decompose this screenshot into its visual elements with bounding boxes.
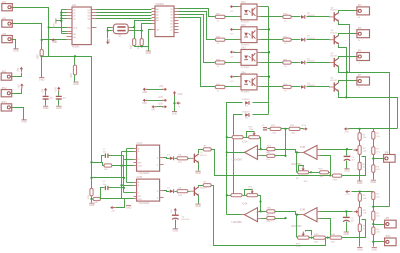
resistor R18 10k	[177, 188, 188, 197]
resistor R6b 4k7	[358, 224, 367, 232]
resistor R19 120k	[232, 136, 243, 139]
wire +5V to OK4 anode	[234, 76, 241, 78]
wire R23b to divider	[275, 218, 286, 220]
wire x389 to tap	[374, 206, 390, 208]
wire IC4A output left	[227, 214, 245, 216]
wire +5V to OK2 anode	[234, 29, 241, 31]
svg-text:+5V: +5V	[229, 56, 233, 58]
wire R19 to trimmer	[244, 137, 249, 139]
wire R5b to trimmer2v	[359, 202, 361, 208]
wire emitter rail mid	[346, 73, 348, 98]
supply +5V arrow OK2	[229, 28, 234, 36]
wire Q4 to A3	[97, 18, 152, 20]
node junction JP2/VDD	[41, 39, 43, 41]
svg-text:+15V: +15V	[56, 87, 58, 93]
supply +15V arrow rail2	[345, 190, 351, 196]
resistor R23 12k	[266, 154, 275, 161]
svg-text:GND: GND	[173, 230, 179, 233]
node junction R16 left	[90, 198, 92, 200]
wire vB to IC7A C	[124, 159, 134, 161]
op-amp IC4B	[291, 208, 321, 228]
resistor R30 4k8	[330, 234, 342, 244]
wire -in to R23	[261, 155, 267, 157]
wire +5V to C3	[175, 213, 177, 215]
resistor R38	[215, 37, 225, 46]
trimmer R3b 10k	[354, 207, 368, 216]
node junction IC3B out	[296, 151, 298, 153]
svg-text:+15V: +15V	[345, 194, 351, 196]
wire C1 right to vB	[109, 155, 124, 157]
resistor R25 osc	[138, 39, 143, 49]
supply VSS arrow at crystal	[106, 38, 111, 44]
resistor R22 220k	[270, 125, 281, 134]
wire O2 to row 3	[179, 15, 216, 63]
capacitor C6 mark	[262, 125, 268, 130]
svg-text:BC637: BC637	[330, 33, 337, 35]
node junction C2 vB	[123, 187, 125, 189]
svg-text:LM1458N: LM1458N	[232, 221, 243, 224]
wire +15V to C7	[58, 92, 60, 96]
transistor Q5 BC637	[329, 30, 339, 44]
ground below R4b	[372, 247, 378, 251]
op-amp IC3A	[232, 140, 261, 161]
diode D6 1N4004	[301, 13, 315, 19]
svg-text:74LS123N: 74LS123N	[138, 203, 149, 205]
wire O1 to row 2	[179, 12, 216, 40]
svg-text:JP12: JP12	[1, 87, 7, 90]
svg-text:JP2: JP2	[2, 17, 7, 20]
svg-text:74LS123N: 74LS123N	[138, 173, 149, 175]
wire vC to IC7B A	[127, 182, 134, 184]
svg-text:VCC: VCC	[142, 102, 147, 105]
node junction vA R15	[120, 165, 122, 167]
wire OK3 emitter to R41	[261, 62, 283, 64]
wire IC7A Q to D1	[164, 158, 170, 159]
node junction R28 right	[309, 237, 314, 239]
ground below T2	[195, 204, 201, 208]
resistor R17 10k	[177, 155, 188, 164]
wire R39 to opto	[225, 62, 241, 64]
wire D3 to Q3 base	[307, 86, 330, 88]
wire OK2 collector to rail	[261, 29, 269, 31]
crystal Q2 resonator	[112, 24, 131, 37]
wire vA to IC7A B	[122, 151, 134, 153]
wire osc bottoms rail	[135, 46, 149, 51]
wire R7 to bottom loop	[212, 186, 326, 246]
wire Q4 collector to JP6	[339, 57, 357, 59]
trimmer R9 100k	[296, 166, 309, 180]
supply +5V arrow OK3	[229, 50, 234, 58]
svg-text:+5V: +5V	[229, 81, 233, 83]
svg-text:GND: GND	[73, 83, 79, 86]
svg-text:IC4B: IC4B	[300, 209, 306, 212]
resistor R6 4k7	[358, 162, 367, 170]
ground below JP13	[21, 120, 27, 124]
resistor R23b 12k	[266, 217, 275, 224]
node junction crystal left	[107, 30, 109, 32]
ground below T1	[195, 171, 201, 175]
resistor R5b 10k	[358, 194, 367, 202]
connector JP11	[1, 70, 12, 80]
ground at IC7B	[126, 205, 132, 209]
wire D6 to Q6 base	[307, 16, 330, 18]
wire CLK to IC2	[49, 27, 67, 29]
supply VH net tie	[151, 104, 167, 112]
trimmer R12 120k	[247, 186, 258, 196]
svg-text:BC107: BC107	[200, 188, 207, 190]
node junction JP10 tap	[372, 241, 374, 243]
IC7A pin stubs	[134, 147, 164, 167]
svg-text:JP1: JP1	[2, 1, 7, 4]
wire left col top	[359, 129, 361, 133]
supply +15V arrow R25	[301, 125, 308, 130]
wire +15V rail2	[352, 191, 374, 193]
wire vertical vB	[123, 156, 125, 193]
wire Q5 collector to JP5	[339, 34, 357, 36]
ground below R6	[357, 181, 363, 185]
wire R6 to ground	[359, 170, 361, 181]
wire IC2 PE stub	[62, 32, 67, 34]
node junction output net	[329, 174, 331, 176]
ground GND at IC2 jam rail	[54, 18, 63, 28]
svg-text:BC107: BC107	[200, 155, 207, 157]
wire C3 to ground	[175, 220, 177, 229]
optocoupler OK2	[238, 25, 261, 46]
resistor R31 vertical	[88, 188, 93, 199]
wire +in to R20	[261, 149, 267, 151]
svg-text:100n/16: 100n/16	[181, 219, 190, 221]
svg-text:+12V: +12V	[158, 97, 164, 99]
resistor R8 10k	[203, 146, 211, 151]
node junction rail1 left col	[358, 128, 360, 130]
resistor R42	[283, 37, 291, 46]
node junction JP8 tap	[372, 157, 374, 159]
resistor R7 10k	[203, 181, 211, 186]
node junction rail end	[90, 177, 92, 179]
resistor R5 10k	[358, 133, 367, 141]
svg-text:GND: GND	[21, 121, 27, 124]
wire crystal left pins	[108, 28, 112, 31]
resistor R16b 40k	[318, 169, 328, 179]
supply +15V arrow C7	[56, 87, 61, 93]
wire trimmer2v to R6b	[359, 217, 361, 224]
supply +5V arrow OK4	[229, 75, 234, 83]
connector JP9	[385, 218, 397, 228]
wire R13 to trimmer2	[243, 195, 247, 197]
wire R9 wiper loop	[299, 166, 304, 171]
wire Q2 to A1	[97, 12, 152, 14]
ground below oscillator	[146, 51, 152, 55]
capacitor C2 10n	[103, 181, 108, 190]
svg-text:GND: GND	[372, 248, 378, 251]
supply VSS net tie	[173, 91, 183, 112]
wire R26 to ground	[41, 57, 43, 78]
wire vA to IC7B B	[122, 185, 134, 187]
ground below R6b	[357, 247, 363, 251]
svg-text:GND: GND	[126, 206, 132, 209]
wire IC4B -in down	[321, 219, 331, 236]
wire OK4 emitter to R40	[261, 86, 283, 88]
node junction emitter rail 2	[345, 96, 347, 98]
svg-text:BC637: BC637	[330, 10, 337, 12]
wire emitter rail to x389	[347, 73, 390, 207]
connector JP1	[2, 1, 13, 11]
node junction vB rail	[123, 177, 125, 179]
wire D8 right	[253, 114, 269, 116]
optocoupler OK1	[238, 2, 261, 23]
resistor R4b 4k7	[372, 227, 381, 235]
wire O3 to row 4	[179, 18, 216, 87]
wire R5 to trimmer	[359, 141, 361, 146]
diode D2 1N4148	[167, 188, 174, 194]
svg-text:JP11: JP11	[1, 70, 7, 73]
wire R18 to T2 base	[188, 191, 190, 193]
svg-text:+15V: +15V	[158, 104, 164, 106]
wire R8 to comparator net	[212, 150, 331, 176]
wire pulldown rail	[42, 57, 92, 178]
supply +15V arrow rail1	[344, 127, 350, 133]
wire node down to R26	[41, 40, 43, 50]
wire JP13 to ground	[12, 108, 24, 120]
svg-text:74100N: 74100N	[155, 3, 164, 6]
resistor R20 80k	[266, 145, 275, 154]
wire R20 to IC3B out	[275, 150, 300, 153]
wire OK1 emitter to R43	[261, 16, 283, 18]
wire IC7B Q to D2	[164, 191, 170, 192]
resistor R41	[283, 59, 291, 68]
wire +5V to OK1 anode	[234, 6, 241, 8]
IC IC2 4029 box	[72, 4, 91, 48]
wire left col top2	[359, 192, 361, 194]
svg-text:GND: GND	[89, 204, 95, 207]
wire +15V rail1	[349, 128, 398, 130]
wire hysteresis divider	[285, 129, 287, 156]
svg-text:GND: GND	[146, 52, 152, 55]
wire D1 to R17	[175, 158, 177, 160]
ground below C3	[173, 229, 179, 233]
resistor R40	[283, 84, 291, 93]
svg-text:BC637: BC637	[330, 55, 337, 57]
svg-text:CLR: CLR	[138, 166, 142, 168]
connector JP10	[385, 236, 397, 246]
supply +5V arrow OK1	[229, 5, 234, 13]
wire R29 jog	[326, 237, 331, 239]
wire -in2 to R23b	[261, 218, 267, 220]
connector JP12	[1, 87, 12, 97]
node junction IC4A +in	[259, 210, 261, 212]
svg-text:GND: GND	[54, 23, 56, 28]
wire wiper to C4b	[346, 150, 348, 156]
resistor R1b 10k	[372, 192, 381, 200]
svg-text:JP3: JP3	[2, 33, 7, 36]
wire C7 to ground	[58, 100, 60, 106]
wire JP1 to CLK node	[13, 8, 49, 28]
wire feedback left leg	[227, 195, 231, 197]
svg-text:PC900V: PC900V	[241, 67, 250, 69]
ground below C5	[344, 232, 350, 236]
svg-text:4029N: 4029N	[72, 45, 80, 48]
svg-text:VDD: VDD	[142, 91, 147, 94]
svg-text:VH: VH	[151, 108, 155, 111]
wire OK4 collector to rail	[261, 76, 269, 78]
resistor R37	[215, 14, 225, 23]
resistor R26	[38, 50, 44, 59]
resistor R13 120k	[231, 194, 242, 197]
wire JP12 to +5V	[12, 89, 22, 94]
svg-text:+15V: +15V	[344, 132, 350, 134]
capacitor C5 4n7	[343, 217, 355, 222]
ground below C7	[56, 106, 62, 110]
node junction x389 tap	[372, 206, 374, 208]
wire OK1 collector to rail	[261, 6, 269, 8]
IC IC7B 74LS123 box	[137, 176, 160, 205]
wire R21 wiper loop	[247, 132, 255, 138]
op-amp IC4A	[232, 203, 261, 224]
wire D7 net to R19 feedback	[227, 137, 233, 139]
wire JP11 to +5V	[12, 73, 22, 77]
wire IC3A output left	[227, 152, 245, 154]
ground below C4b	[344, 169, 350, 173]
svg-text:VSS: VSS	[178, 93, 183, 96]
diode D1 1N4148	[167, 155, 174, 161]
resistor R20b 80k	[266, 208, 275, 217]
wire R37 to opto	[225, 16, 241, 18]
node junction R26 bottom	[41, 55, 43, 57]
wire C1 left loop	[102, 156, 105, 163]
wire R34 to opto	[225, 86, 241, 88]
svg-text:CO: CO	[87, 28, 90, 30]
svg-text:+5V: +5V	[159, 86, 164, 88]
wire R16 row to CLR	[101, 198, 134, 200]
svg-text:GND: GND	[56, 107, 62, 110]
supply +5V arrow JP11	[18, 67, 23, 72]
wire osc1 down to R24	[134, 28, 136, 39]
wire R22 to junction	[281, 128, 289, 130]
connector JP4	[357, 5, 370, 19]
resistor R43	[283, 14, 291, 23]
supply +5V arrow JP12	[19, 83, 24, 88]
wire R41 to D4	[292, 62, 301, 64]
wire IC2 jam rail	[62, 10, 67, 32]
diode D8 1N4007	[242, 111, 250, 119]
wire trimmer2 to +in node	[258, 196, 261, 212]
svg-text:GND: GND	[357, 182, 363, 185]
wire osc1 riser to IC1	[135, 21, 152, 28]
svg-text:OK4: OK4	[241, 72, 246, 74]
supply VDD arrow at IC2	[51, 38, 57, 44]
node junction bottom net	[327, 236, 329, 238]
diode D4 1N4004	[301, 58, 315, 64]
capacitor C1 10n	[103, 149, 108, 158]
node junctions opto rail	[268, 28, 270, 78]
resistor R16 10k	[93, 197, 100, 204]
diode D7 1N4007	[242, 99, 250, 107]
supply +5V arrow C4	[42, 88, 47, 93]
wire C2 left loop	[101, 188, 105, 199]
wire Q4 emitter down	[339, 67, 347, 73]
IC IC1 74155 box	[155, 3, 174, 37]
node junction R22/R25	[284, 128, 286, 130]
svg-text:PC900V: PC900V	[241, 92, 250, 94]
wire R23 to divider	[275, 155, 286, 157]
wire C6 to R22	[268, 128, 271, 130]
wire osc2 down to R25	[141, 31, 143, 39]
wire R1b to R2b	[373, 200, 375, 212]
transistor T2 BC107	[189, 185, 207, 196]
connector JP5	[357, 28, 370, 42]
node junction osc bottom	[141, 45, 143, 47]
wire +5V to C4	[45, 93, 47, 96]
svg-text:IC3B: IC3B	[300, 146, 306, 149]
svg-text:CLK: CLK	[73, 27, 78, 29]
svg-text:GND: GND	[39, 78, 45, 81]
wire wiper to C5	[346, 212, 348, 217]
IC1 pin names	[156, 8, 173, 32]
wire osc2 riser to IC1	[142, 24, 152, 31]
wire IC3B -in down	[321, 156, 331, 176]
wire emitter rail to x397	[347, 98, 398, 129]
wire crystal to IC1 osc1	[131, 27, 135, 29]
svg-text:CLR: CLR	[138, 199, 142, 201]
wire crystal to osc2	[131, 30, 142, 32]
svg-text:VDD: VDD	[52, 41, 57, 44]
svg-text:GND: GND	[371, 181, 377, 184]
wire trimmer to +in node	[260, 138, 261, 150]
wire opto collector rail	[268, 7, 270, 115]
svg-text:GND: GND	[43, 107, 49, 110]
ground below VSS	[172, 112, 178, 116]
connector JP13	[1, 101, 12, 111]
resistor R4 4k7	[372, 165, 381, 173]
wire rail branch to R15	[92, 163, 105, 166]
wire JP1 vertical to rail	[48, 28, 50, 57]
wire R27 top	[74, 57, 76, 66]
wire rail to R31	[91, 178, 93, 189]
wire R28 wiper loop	[306, 231, 312, 236]
svg-text:+5V: +5V	[42, 88, 44, 93]
svg-text:R27: R27	[71, 72, 73, 77]
svg-text:JP10: JP10	[385, 236, 391, 238]
wire OK4 collector to D7 rail	[253, 102, 269, 104]
node junction rail to R15	[90, 161, 92, 163]
wire IC3B +in to trimmer	[321, 149, 353, 151]
wire IC4B out rail down	[296, 215, 298, 238]
connector JP7	[357, 75, 370, 89]
wire trimmer to R6	[359, 155, 361, 163]
connector JP8	[384, 153, 396, 163]
wire R20b to IC4B out	[275, 212, 300, 215]
wire R42 to D5	[292, 39, 301, 41]
diode D5 1N4004	[301, 36, 315, 42]
svg-text:OK3: OK3	[241, 48, 246, 50]
svg-text:IC2: IC2	[72, 4, 77, 7]
wire crystal left to VSS	[107, 31, 109, 39]
transistor Q6 BC637	[329, 7, 339, 21]
svg-text:GND: GND	[357, 248, 363, 251]
node junction trimmer2 wiper	[259, 200, 261, 202]
wire Q6 emitter rail	[339, 22, 350, 73]
wire Q6 collector to JP4	[339, 11, 357, 13]
node junctions on jam rail	[60, 12, 62, 20]
resistor R29 40k	[313, 234, 325, 244]
wire T1 collector to R8	[199, 150, 204, 154]
node junction wiper C5	[345, 210, 347, 212]
wire D5 to Q5 base	[307, 39, 330, 41]
IC2 pin stubs	[67, 10, 97, 40]
wire D8 to comparator 2	[234, 115, 243, 196]
node junction R23b divider	[284, 181, 308, 219]
wire Q3 to A2	[97, 15, 152, 17]
